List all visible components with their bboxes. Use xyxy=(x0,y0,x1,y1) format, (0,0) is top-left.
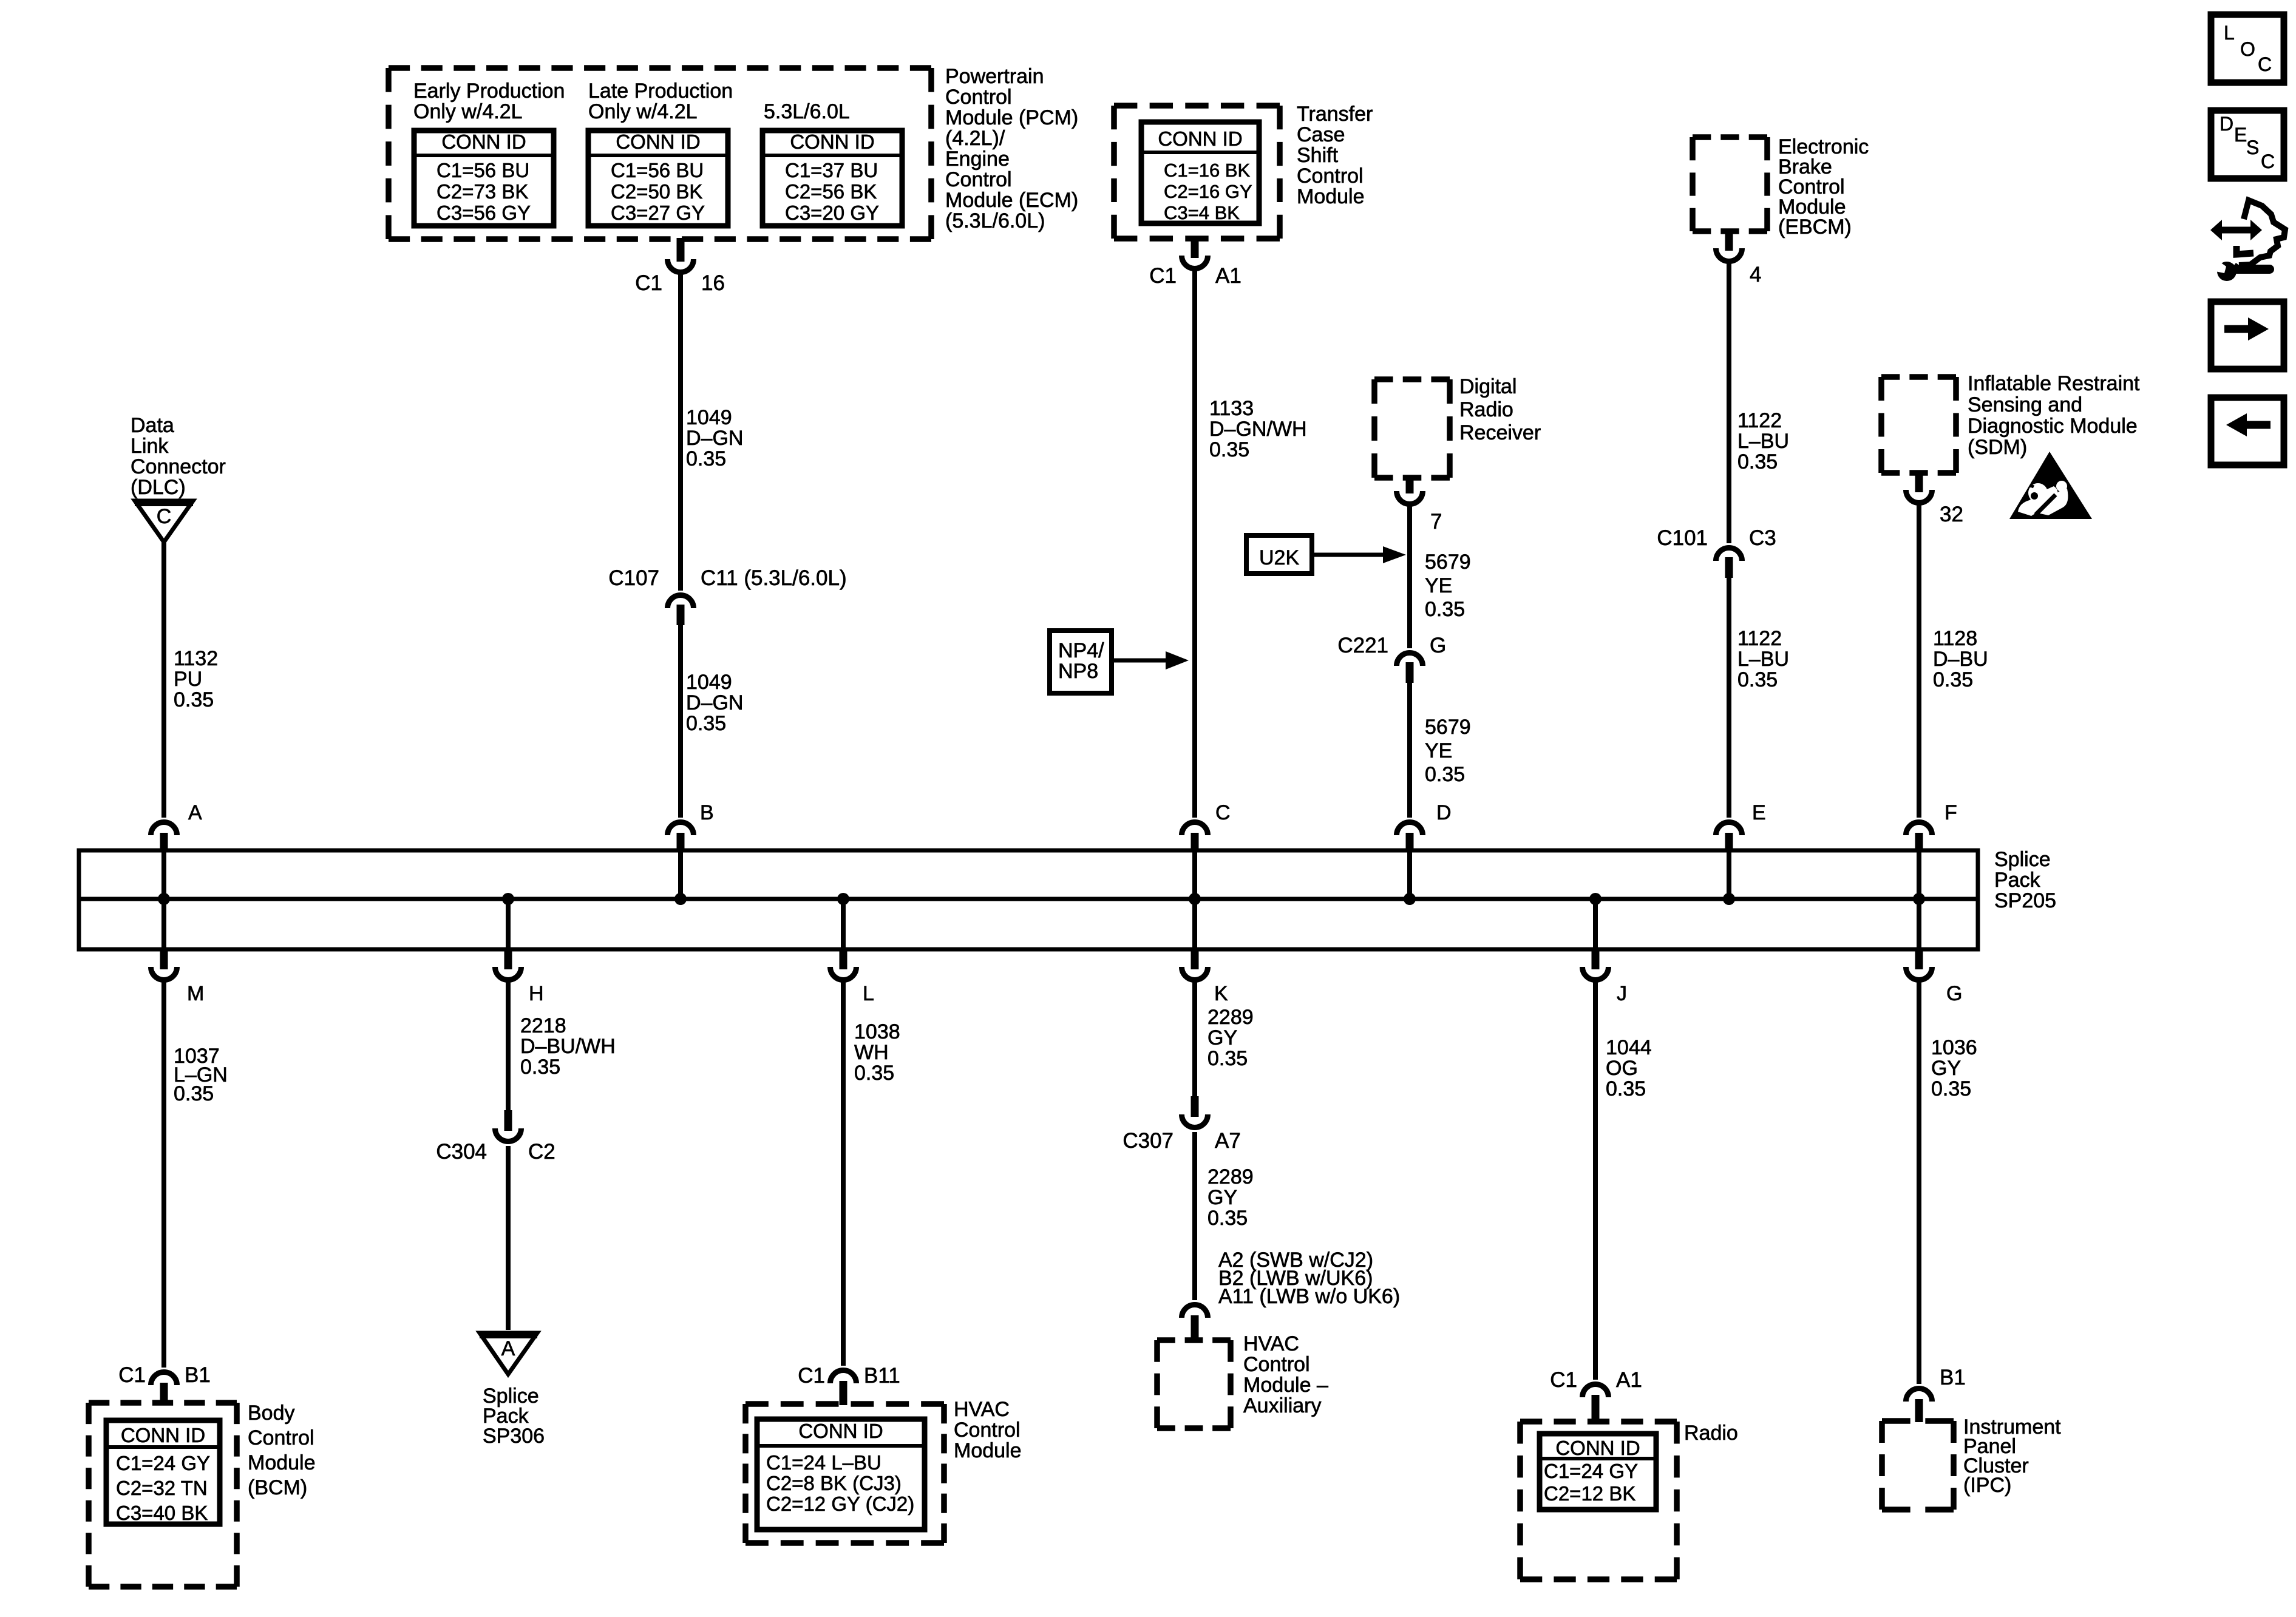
inline connector C107 / C11 (5.3L/6.0L) xyxy=(668,595,694,609)
SP205 internal wire B xyxy=(678,850,683,899)
svg-text:B11: B11 xyxy=(864,1364,900,1388)
svg-text:YE: YE xyxy=(1425,739,1452,762)
PCM connector table 3 (5.3L/6.0L) xyxy=(763,131,902,226)
svg-text:Data: Data xyxy=(131,414,174,437)
wire 1122 L-BU segment C101 to splice E xyxy=(1727,578,1731,818)
svg-text:0.35: 0.35 xyxy=(1425,598,1465,621)
svg-text:M: M xyxy=(187,982,204,1005)
connector C1 pin B11 at HVAC Control Module xyxy=(840,1381,847,1405)
svg-text:GY: GY xyxy=(1931,1057,1961,1080)
U2K arrow to wire xyxy=(1312,553,1384,557)
svg-text:0.35: 0.35 xyxy=(686,447,726,470)
svg-text:(BCM): (BCM) xyxy=(248,1476,307,1499)
wire 1049 D-GN segment C107 to splice B xyxy=(678,625,683,818)
svg-text:Module: Module xyxy=(954,1439,1022,1462)
svg-text:D: D xyxy=(2220,113,2233,135)
svg-text:Pack: Pack xyxy=(1994,869,2041,892)
option code NP4/NP8 box xyxy=(1050,631,1112,693)
svg-text:CONN ID: CONN ID xyxy=(616,131,700,153)
svg-text:Body: Body xyxy=(248,1402,295,1425)
SP205 internal wire D xyxy=(1407,850,1412,899)
svg-text:Only w/4.2L: Only w/4.2L xyxy=(413,100,523,123)
wire 1037 L-GN splice M to BCM xyxy=(161,980,166,1368)
svg-text:C107: C107 xyxy=(608,566,659,590)
connector pin 4 at EBCM xyxy=(1725,230,1733,251)
svg-text:Engine: Engine xyxy=(945,147,1010,171)
connector C1 pin A1 at TCSCM xyxy=(1191,237,1199,258)
svg-text:C1: C1 xyxy=(1550,1368,1577,1392)
svg-text:1122: 1122 xyxy=(1737,409,1782,432)
svg-text:1049: 1049 xyxy=(686,671,732,694)
svg-text:5679: 5679 xyxy=(1425,716,1471,739)
splice connector J (bottom) xyxy=(1592,948,1600,969)
module Body Control Module dashed box xyxy=(89,1400,237,1406)
svg-text:1133: 1133 xyxy=(1209,397,1254,420)
splice connector D (top) xyxy=(1406,833,1414,852)
SP205 internal wire F-G xyxy=(1917,850,1921,949)
splice connector A (top) xyxy=(160,833,168,852)
svg-text:5.3L/6.0L: 5.3L/6.0L xyxy=(764,100,850,123)
svg-text:C1=56 BU: C1=56 BU xyxy=(436,159,529,181)
svg-text:D–BU: D–BU xyxy=(1933,648,1988,671)
wire 1128 D-BU from SDM to splice F xyxy=(1917,503,1921,818)
legend wrench glyph xyxy=(2217,262,2237,281)
svg-text:1128: 1128 xyxy=(1933,627,1977,650)
svg-text:Control: Control xyxy=(1243,1353,1310,1376)
svg-text:Inflatable Restraint: Inflatable Restraint xyxy=(1968,372,2140,395)
SP205 internal wire C-K xyxy=(1192,850,1197,949)
junction dot at x=2322 xyxy=(1404,893,1416,905)
connector pin B1 at IPC xyxy=(1915,1399,1923,1422)
svg-text:Module –: Module – xyxy=(1243,1374,1328,1397)
svg-text:C101: C101 xyxy=(1657,526,1708,550)
wire 2289 GY splice K to C307 xyxy=(1192,980,1197,1097)
svg-text:D–BU/WH: D–BU/WH xyxy=(520,1035,616,1058)
svg-text:C1=24 L–BU: C1=24 L–BU xyxy=(766,1451,881,1474)
svg-text:1044: 1044 xyxy=(1606,1036,1652,1059)
svg-text:0.35: 0.35 xyxy=(1931,1077,1971,1100)
svg-text:Radio: Radio xyxy=(1684,1422,1738,1445)
svg-text:C3=4 BK: C3=4 BK xyxy=(1164,202,1240,223)
module Radio dashed box xyxy=(1520,1419,1677,1425)
svg-text:J: J xyxy=(1617,982,1627,1005)
svg-text:S: S xyxy=(2246,137,2259,158)
svg-text:OG: OG xyxy=(1606,1057,1638,1080)
svg-text:C2=12 GY (CJ2): C2=12 GY (CJ2) xyxy=(766,1493,914,1515)
svg-text:C1=16 BK: C1=16 BK xyxy=(1164,160,1251,181)
svg-text:Module: Module xyxy=(1297,185,1365,208)
splice connector L (bottom) xyxy=(840,948,847,969)
wire 1133 D-GN/WH from TCSCM to splice C xyxy=(1192,268,1197,818)
svg-text:0.35: 0.35 xyxy=(1933,668,1973,691)
wire 1132 PU from DLC to splice A xyxy=(161,541,166,818)
wire 1122 L-BU segment EBCM to C101 xyxy=(1727,261,1731,543)
svg-text:C3=27 GY: C3=27 GY xyxy=(611,202,705,224)
svg-text:C2=56 BK: C2=56 BK xyxy=(785,180,877,203)
svg-text:CONN ID: CONN ID xyxy=(1158,127,1242,150)
junction dot at x=3161 xyxy=(1913,893,1925,905)
svg-text:L: L xyxy=(863,982,874,1005)
svg-text:C: C xyxy=(2258,53,2272,75)
svg-text:C2=50 BK: C2=50 BK xyxy=(611,180,702,203)
svg-text:C1: C1 xyxy=(118,1363,146,1387)
svg-text:A7: A7 xyxy=(1215,1129,1241,1153)
svg-text:SP205: SP205 xyxy=(1994,889,2056,912)
svg-text:C307: C307 xyxy=(1123,1129,1173,1153)
svg-text:GY: GY xyxy=(1207,1026,1237,1049)
splice pack SP306 triangle symbol A xyxy=(480,1333,537,1374)
svg-text:C3=56 GY: C3=56 GY xyxy=(436,202,531,224)
svg-text:C1: C1 xyxy=(635,271,662,295)
svg-text:Auxiliary: Auxiliary xyxy=(1243,1394,1321,1417)
svg-text:Case: Case xyxy=(1297,123,1345,146)
svg-text:B1: B1 xyxy=(1940,1366,1966,1389)
svg-text:C2=73 BK: C2=73 BK xyxy=(436,180,528,203)
SP205 internal wire H xyxy=(506,899,511,949)
svg-text:Late Production: Late Production xyxy=(588,80,733,103)
svg-text:1132: 1132 xyxy=(174,647,218,670)
svg-text:1038: 1038 xyxy=(854,1020,900,1043)
svg-text:NP4/: NP4/ xyxy=(1058,639,1104,662)
splice connector B (top) xyxy=(677,833,685,852)
SP205 internal bus line xyxy=(79,897,1978,901)
svg-text:HVAC: HVAC xyxy=(1243,1332,1299,1355)
splice connector M (bottom) xyxy=(160,948,168,969)
svg-text:0.35: 0.35 xyxy=(1737,668,1778,691)
HVAC connector table xyxy=(757,1419,925,1530)
svg-text:Powertrain: Powertrain xyxy=(945,65,1044,88)
splice connector E (top) xyxy=(1725,833,1733,852)
svg-text:A: A xyxy=(188,801,202,824)
svg-text:Control: Control xyxy=(1297,164,1364,188)
connector C1 pin B1 at BCM xyxy=(160,1383,168,1404)
svg-text:G: G xyxy=(1946,982,1962,1005)
svg-text:G: G xyxy=(1430,634,1446,657)
svg-text:A: A xyxy=(501,1337,515,1360)
svg-text:(EBCM): (EBCM) xyxy=(1778,215,1852,239)
svg-text:Link: Link xyxy=(131,435,169,458)
svg-text:U2K: U2K xyxy=(1259,546,1299,569)
splice connector F (top) xyxy=(1915,833,1923,852)
svg-text:D–GN: D–GN xyxy=(686,691,743,714)
junction dot at x=1968 xyxy=(1189,893,1201,905)
svg-text:Splice: Splice xyxy=(1994,848,2051,871)
legend forward arrow box xyxy=(2211,302,2284,369)
wire segment C304 to splice pack SP306 xyxy=(506,1146,511,1330)
junction dot at x=2628 xyxy=(1589,893,1601,905)
svg-text:Module: Module xyxy=(248,1451,316,1474)
BCM connector table xyxy=(106,1420,220,1524)
svg-text:0.35: 0.35 xyxy=(174,688,214,711)
svg-text:Digital: Digital xyxy=(1459,375,1517,398)
junction dot at x=1389 xyxy=(837,893,849,905)
svg-text:Control: Control xyxy=(945,86,1012,109)
svg-text:C1=37 BU: C1=37 BU xyxy=(785,159,878,181)
svg-text:L–BU: L–BU xyxy=(1737,430,1789,453)
svg-text:Module (PCM): Module (PCM) xyxy=(945,106,1078,129)
svg-text:NP8: NP8 xyxy=(1058,660,1098,683)
svg-text:C2=16 GY: C2=16 GY xyxy=(1164,181,1252,202)
svg-text:2289: 2289 xyxy=(1207,1165,1254,1188)
splice connector C (top) xyxy=(1191,833,1199,852)
svg-text:0.35: 0.35 xyxy=(854,1062,894,1085)
svg-text:C: C xyxy=(2261,151,2275,172)
wire 2289 GY segment C307 to HVAC aux xyxy=(1192,1132,1197,1300)
svg-text:L: L xyxy=(2224,22,2235,44)
svg-text:E: E xyxy=(2234,124,2247,146)
module PCM/ECM (Powertrain Control Module) dashed box xyxy=(389,65,931,71)
wire 1038 WH splice L to HVAC xyxy=(841,980,846,1366)
module Instrument Panel Cluster dashed box xyxy=(1882,1418,1954,1424)
svg-text:C1=24 GY: C1=24 GY xyxy=(1544,1460,1638,1482)
svg-text:A1: A1 xyxy=(1215,264,1241,288)
svg-text:WH: WH xyxy=(854,1041,889,1064)
svg-text:0.35: 0.35 xyxy=(1209,438,1249,461)
module Inflatable Restraint SDM dashed box xyxy=(1881,374,1956,380)
legend LOC box xyxy=(2211,15,2284,83)
svg-text:C2: C2 xyxy=(528,1140,555,1164)
svg-text:A11 (LWB w/o UK6): A11 (LWB w/o UK6) xyxy=(1218,1285,1400,1308)
svg-text:0.35: 0.35 xyxy=(174,1082,214,1105)
svg-text:CONN ID: CONN ID xyxy=(441,131,526,153)
svg-text:H: H xyxy=(529,982,544,1005)
splice connector G (bottom) xyxy=(1915,948,1923,969)
svg-text:Module (ECM): Module (ECM) xyxy=(945,189,1078,212)
svg-text:K: K xyxy=(1214,982,1228,1005)
svg-text:C2=32 TN: C2=32 TN xyxy=(116,1477,208,1499)
splice pack SP205 box xyxy=(79,850,1978,949)
svg-text:Only w/4.2L: Only w/4.2L xyxy=(588,100,698,123)
svg-text:(5.3L/6.0L): (5.3L/6.0L) xyxy=(945,209,1045,232)
module HVAC Control Module - Auxiliary dashed box xyxy=(1157,1337,1231,1343)
svg-text:Connector: Connector xyxy=(131,455,226,478)
module Electronic Brake Control Module dashed box xyxy=(1693,134,1767,140)
wire 5679 YE segment C221 to splice D xyxy=(1407,683,1412,818)
svg-text:Sensing and: Sensing and xyxy=(1968,393,2082,416)
svg-text:HVAC: HVAC xyxy=(954,1398,1010,1421)
splice connector H (bottom) xyxy=(504,948,512,969)
svg-text:O: O xyxy=(2240,38,2255,60)
svg-text:C1: C1 xyxy=(1149,264,1177,288)
svg-text:C3: C3 xyxy=(1749,526,1776,550)
svg-text:Control: Control xyxy=(945,168,1012,191)
wire 2218 D-BU/WH splice H to C304 xyxy=(506,980,511,1111)
svg-text:E: E xyxy=(1752,801,1766,824)
junction dot at x=270 xyxy=(158,893,170,905)
svg-text:C304: C304 xyxy=(436,1140,487,1164)
module Transfer Case Shift Control Module dashed box xyxy=(1114,103,1280,109)
svg-text:5679: 5679 xyxy=(1425,551,1471,574)
svg-text:(SDM): (SDM) xyxy=(1968,436,2027,459)
svg-text:YE: YE xyxy=(1425,574,1452,597)
svg-text:(DLC): (DLC) xyxy=(131,476,186,499)
NP4/NP8 arrow to wire xyxy=(1112,659,1172,663)
svg-text:(4.2L)/: (4.2L)/ xyxy=(945,127,1005,150)
wire 1049 D-GN segment PCM to C107 xyxy=(678,272,683,591)
svg-text:0.35: 0.35 xyxy=(1425,763,1465,786)
svg-text:1049: 1049 xyxy=(686,406,732,429)
svg-text:C11 (5.3L/6.0L): C11 (5.3L/6.0L) xyxy=(701,566,847,590)
svg-text:16: 16 xyxy=(701,271,725,295)
svg-text:1036: 1036 xyxy=(1931,1036,1977,1059)
svg-text:Transfer: Transfer xyxy=(1297,103,1373,126)
junction dot at x=2848 xyxy=(1723,893,1735,905)
svg-text:0.35: 0.35 xyxy=(1207,1207,1248,1230)
svg-text:0.35: 0.35 xyxy=(520,1056,560,1079)
legend DESC box xyxy=(2211,110,2284,178)
svg-text:4: 4 xyxy=(1750,263,1761,286)
TCSCM connector table xyxy=(1141,122,1259,223)
PCM connector table 1 (Early Production) xyxy=(414,131,554,226)
svg-text:2218: 2218 xyxy=(520,1014,566,1037)
svg-text:L–BU: L–BU xyxy=(1737,648,1789,671)
svg-text:D–GN: D–GN xyxy=(686,427,743,450)
svg-text:B1: B1 xyxy=(185,1363,211,1387)
inline connector C221 / G xyxy=(1397,653,1423,666)
svg-text:Shift: Shift xyxy=(1297,144,1339,167)
svg-text:0.35: 0.35 xyxy=(1606,1077,1646,1100)
svg-text:2289: 2289 xyxy=(1207,1006,1254,1029)
svg-text:CONN ID: CONN ID xyxy=(121,1424,205,1446)
svg-text:Radio: Radio xyxy=(1459,398,1513,421)
svg-text:CONN ID: CONN ID xyxy=(1555,1437,1640,1459)
inline connector C304 / C2 xyxy=(504,1110,512,1131)
svg-text:SP306: SP306 xyxy=(483,1425,545,1448)
svg-text:Receiver: Receiver xyxy=(1459,421,1541,444)
svg-text:CONN ID: CONN ID xyxy=(798,1420,883,1442)
svg-text:7: 7 xyxy=(1430,510,1442,534)
svg-text:A1: A1 xyxy=(1616,1368,1642,1392)
module HVAC Control Module dashed box xyxy=(746,1401,944,1407)
SP205 internal wire E xyxy=(1727,850,1731,899)
svg-text:D: D xyxy=(1436,801,1452,824)
legend hand with double arrow and wrench icon xyxy=(2239,200,2285,265)
svg-text:0.35: 0.35 xyxy=(1207,1047,1248,1070)
DLC triangle symbol C xyxy=(135,501,193,542)
svg-text:C: C xyxy=(1215,801,1231,824)
svg-text:C2=12 BK: C2=12 BK xyxy=(1544,1482,1635,1505)
svg-text:Control: Control xyxy=(248,1426,314,1449)
svg-text:GY: GY xyxy=(1207,1186,1237,1209)
svg-text:F: F xyxy=(1944,801,1957,824)
inline connector C101 / C3 xyxy=(1716,548,1742,561)
svg-text:C2=8 BK (CJ3): C2=8 BK (CJ3) xyxy=(766,1472,902,1494)
connector pin 32 at SDM xyxy=(1915,472,1923,492)
option code U2K box xyxy=(1246,535,1312,574)
Radio connector table xyxy=(1540,1434,1656,1510)
PCM connector table 2 (Late Production) xyxy=(588,131,728,226)
connector C1 pin A1 at Radio xyxy=(1592,1395,1600,1423)
splice connector K (bottom) xyxy=(1191,948,1199,969)
svg-text:C1=56 BU: C1=56 BU xyxy=(611,159,704,181)
SP205 internal wire A-M xyxy=(161,850,166,949)
junction dot at x=837 xyxy=(502,893,514,905)
svg-text:Diagnostic Module: Diagnostic Module xyxy=(1968,415,2138,438)
connector pin 7 at DRR xyxy=(1406,476,1414,493)
SP205 internal wire L xyxy=(841,899,846,949)
wire 1044 OG splice J to Radio xyxy=(1593,980,1598,1380)
connector C1 pin 16 at PCM xyxy=(677,238,685,262)
wire 5679 YE segment DRR to C221 xyxy=(1407,504,1412,648)
svg-text:B: B xyxy=(700,801,714,824)
junction dot at x=1121 xyxy=(674,893,687,905)
svg-text:D–GN/WH: D–GN/WH xyxy=(1209,418,1307,441)
svg-text:C3=20 GY: C3=20 GY xyxy=(785,202,879,224)
svg-text:C1=24 GY: C1=24 GY xyxy=(116,1452,210,1474)
wire 1036 GY splice G to IPC xyxy=(1917,980,1921,1384)
module Digital Radio Receiver dashed box xyxy=(1374,376,1450,382)
svg-text:C3=40 BK: C3=40 BK xyxy=(116,1502,208,1524)
svg-text:32: 32 xyxy=(1940,503,1963,526)
connector at HVAC Control Module - Auxiliary xyxy=(1191,1315,1199,1341)
inline connector C307 / A7 xyxy=(1191,1096,1199,1117)
svg-text:Control: Control xyxy=(954,1419,1021,1442)
svg-text:1122: 1122 xyxy=(1737,627,1782,650)
svg-text:C221: C221 xyxy=(1337,634,1388,657)
svg-text:CONN ID: CONN ID xyxy=(790,131,874,153)
svg-text:C: C xyxy=(157,505,172,528)
svg-text:C1: C1 xyxy=(798,1364,825,1388)
svg-text:(IPC): (IPC) xyxy=(1963,1474,2011,1497)
svg-text:Early Production: Early Production xyxy=(413,80,565,103)
svg-text:PU: PU xyxy=(174,668,202,691)
svg-text:0.35: 0.35 xyxy=(686,712,726,735)
svg-text:0.35: 0.35 xyxy=(1737,450,1778,473)
SP205 internal wire J xyxy=(1593,899,1598,949)
legend back arrow box xyxy=(2211,398,2284,465)
